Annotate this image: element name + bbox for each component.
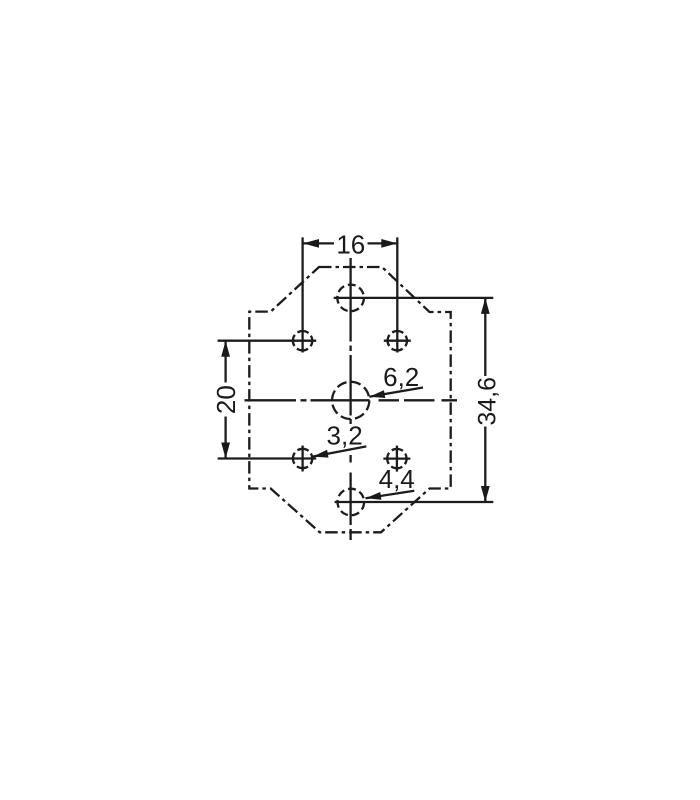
hole bottom center 4,4 [338, 489, 365, 516]
extension/centerline horizontals for dim 20 [218, 341, 317, 459]
dim line 16 [303, 242, 397, 244]
hole top-right 3,2 [388, 331, 407, 350]
hole bottom-right 3,2 [387, 449, 406, 468]
dim line 20 [224, 341, 226, 459]
vertical cross of bottom-left hole [301, 446, 303, 472]
arrow leader 4,4 [366, 492, 382, 500]
horizontal centerline [245, 399, 458, 401]
centerline of bottom hole / extension 34,6 [335, 501, 494, 503]
leader 3,2 [313, 446, 367, 456]
arrow 20 top [221, 341, 230, 357]
svg-text:3,2: 3,2 [327, 421, 363, 451]
arrow 34,6 top [481, 298, 490, 314]
crosses of right holes [383, 341, 410, 472]
centerline of top hole / extension 34,6 [334, 297, 494, 299]
arrow leader 6,2 [369, 390, 385, 398]
extension/centerline verticals for dim 16 [303, 237, 398, 352]
svg-text:16: 16 [336, 230, 365, 260]
svg-text:6,2: 6,2 [383, 362, 419, 392]
hole center 6,2 [332, 382, 369, 419]
plate outline (phantom dash-dot) [249, 267, 450, 532]
arrow 20 bottom [221, 443, 230, 459]
hole top center 4,4 [337, 285, 364, 312]
vertical centerline [349, 258, 351, 540]
arrow 16 left [303, 239, 319, 248]
svg-text:20: 20 [211, 385, 241, 414]
svg-text:34,6: 34,6 [474, 377, 502, 426]
arrow 16 right [381, 239, 397, 248]
hole top-left 3,2 [293, 331, 312, 350]
dim line 34,6 [484, 298, 486, 502]
leader 4,4 [366, 491, 415, 499]
leader 6,2 [369, 388, 423, 397]
hole bottom-left 3,2 [293, 449, 312, 468]
arrow 34,6 bottom [481, 486, 490, 502]
svg-text:4,4: 4,4 [379, 464, 415, 494]
arrow leader 3,2 [313, 450, 329, 458]
